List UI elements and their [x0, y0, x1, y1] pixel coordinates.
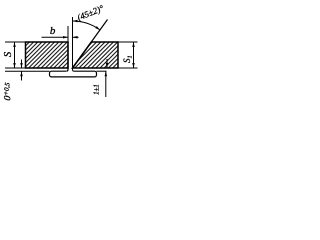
- extension line plate top right: [118, 41, 138, 43]
- root gap left edge with fillet: [66, 42, 68, 71]
- label S: [3, 51, 14, 57]
- extension line plate bottom right: [118, 67, 138, 69]
- dimension 1±1 upper arrow: [106, 59, 108, 68]
- angle arc arrow right: [95, 26, 100, 30]
- dimension S arrow down: [13, 63, 16, 68]
- angle dimension arc: [73, 21, 101, 30]
- svg-text:b: b: [50, 25, 56, 37]
- extension line plate bottom left: [5, 67, 26, 69]
- dimension b arrow right: [63, 36, 68, 39]
- dimension 0+0,5 lower arrow: [21, 71, 23, 80]
- svg-text:S: S: [3, 51, 14, 57]
- dimension S arrow up: [13, 42, 16, 47]
- label 1±1: [93, 84, 101, 95]
- label 0+0,5: [2, 82, 15, 102]
- dimension S1 line: [133, 42, 135, 68]
- right plate S1 (bevelled): [73, 42, 119, 68]
- extension line b left above plate: [67, 26, 69, 42]
- dimension 1±1 lower arrow: [105, 71, 107, 97]
- dimension S1 arrow down: [132, 63, 135, 68]
- dimension S1 arrow up: [132, 42, 135, 47]
- angle arc arrow left: [73, 20, 78, 23]
- dimension 0+0,5 upper arrow: [21, 60, 23, 69]
- label (45±2)°: [76, 3, 106, 23]
- dimension b tail right: [73, 36, 79, 38]
- backing strip: [50, 71, 97, 77]
- bevel edge line extended: [73, 20, 108, 69]
- root gap plug whiteout: [66, 70, 74, 72]
- dimension b tail left: [42, 36, 69, 38]
- label S1: [122, 55, 134, 63]
- extension line strip top left: [5, 70, 50, 72]
- extension line strip top right: [97, 70, 107, 72]
- dimension S line: [14, 42, 16, 68]
- left plate S: [26, 42, 69, 68]
- dimension b arrow left: [73, 36, 78, 39]
- root gap right edge with fillet: [73, 17, 75, 71]
- extension line plate top left: [5, 41, 26, 43]
- svg-text:1±1: 1±1: [93, 84, 101, 95]
